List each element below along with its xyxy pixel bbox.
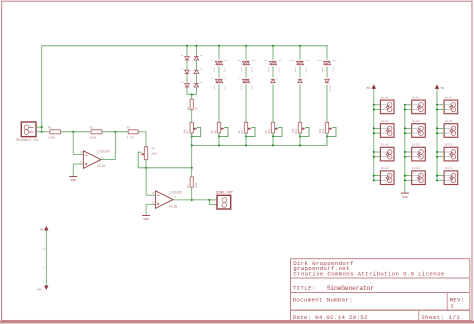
svg-text:4148: 4148 <box>277 67 280 73</box>
wire top bus <box>42 45 328 47</box>
svg-text:SINE_OUT: SINE_OUT <box>216 192 234 196</box>
diode D12 <box>273 61 277 64</box>
junction bottom bus <box>299 144 301 146</box>
svg-text:1N4148: 1N4148 <box>328 84 331 93</box>
svg-text:D14: D14 <box>306 59 311 62</box>
junction pins JU-B4 <box>404 175 406 177</box>
wire R9 wiper loop <box>246 127 255 136</box>
svg-text:4148: 4148 <box>250 67 253 73</box>
diode D13 <box>296 61 300 64</box>
junction R10 bottom <box>272 135 274 137</box>
wire pins JU-A4 <box>374 175 381 177</box>
svg-text:JU-C1: JU-C1 <box>444 96 452 99</box>
junction R9 bottom <box>245 135 247 137</box>
connector JU-B3 <box>412 147 426 161</box>
svg-text:TITLE:: TITLE: <box>293 285 316 292</box>
wire column 3 <box>245 46 247 60</box>
junction bus column 5 <box>299 45 301 47</box>
junction bus at string A <box>186 45 188 47</box>
resistor R3 <box>128 130 138 134</box>
wire R12 wiper loop <box>327 127 336 136</box>
wire IC1A -in <box>72 132 74 155</box>
svg-text:R2: R2 <box>89 126 93 129</box>
junction pins JU-A4 <box>373 175 375 177</box>
connector JU-B2 <box>412 124 426 138</box>
svg-text:1: 1 <box>102 156 104 159</box>
svg-text:2: 2 <box>81 151 83 154</box>
wire diode string D4-D6 <box>195 46 197 57</box>
svg-text:D1: D1 <box>181 54 184 57</box>
trimmer R7 <box>190 122 193 133</box>
svg-text:D6: D6 <box>200 81 203 84</box>
svg-text:JU-A4: JU-A4 <box>380 167 388 170</box>
svg-text:4148: 4148 <box>240 85 243 91</box>
power +5V IC1P <box>44 226 48 230</box>
connector JU-A2 <box>380 124 394 138</box>
connector TRIANGLE_IN <box>21 122 36 137</box>
svg-text:JU-A2: JU-A2 <box>380 120 388 123</box>
svg-text:JU-C2: JU-C2 <box>444 120 452 123</box>
svg-text:4148: 4148 <box>250 85 253 91</box>
power GND IC1P <box>44 286 48 290</box>
svg-text:GND: GND <box>402 196 408 199</box>
svg-text:GND: GND <box>143 218 149 221</box>
power +5V grid right <box>435 85 439 89</box>
junction pins JU-A1 <box>373 104 375 106</box>
wire string merge <box>187 94 196 96</box>
svg-text:1K: 1K <box>195 106 198 110</box>
svg-text:4148: 4148 <box>331 67 334 73</box>
wire IC1B output to SINE_OUT <box>173 199 209 201</box>
op-amp IC1B <box>155 191 173 209</box>
wire R4 bottom to node S <box>145 160 147 168</box>
svg-text:100K: 100K <box>48 137 55 140</box>
resistor R2 <box>91 130 102 134</box>
trimmer R4 <box>144 147 147 160</box>
junction bus column 2 <box>218 45 220 47</box>
wire IC1P supply <box>45 231 47 286</box>
wire diode string D1-D3 <box>186 46 188 57</box>
diode pair2 col3b <box>246 79 250 82</box>
svg-text:4148: 4148 <box>304 67 307 73</box>
svg-text:4.7K: 4.7K <box>127 137 134 140</box>
svg-text:D12: D12 <box>279 59 284 62</box>
junction bottom bus <box>272 144 274 146</box>
wire connector to R1 <box>42 131 50 133</box>
junction R7 bottom <box>191 135 193 137</box>
wire pins JU-A2 <box>374 127 381 129</box>
junction pins JU-A3 <box>373 151 375 153</box>
wire IC1B -in riser <box>145 168 147 195</box>
wire pins JU-B1 <box>405 104 412 106</box>
connector JU-B1 <box>412 100 426 114</box>
wire bus to node S <box>191 145 193 167</box>
wire R10 wiper loop <box>273 127 282 136</box>
svg-text:R3: R3 <box>127 126 131 129</box>
svg-text:5K: 5K <box>265 130 268 134</box>
diode D7 <box>215 61 219 64</box>
node IC1A output <box>114 131 116 133</box>
svg-text:JU-A1: JU-A1 <box>380 96 388 99</box>
svg-text:V-: V- <box>42 266 45 269</box>
wire column 4 <box>272 46 274 60</box>
svg-text:R5: R5 <box>187 184 190 188</box>
trimmer R9 <box>244 122 247 133</box>
junction R11 bottom <box>299 135 301 137</box>
wire pins JU-C1 <box>437 104 444 106</box>
diode D4 <box>194 57 199 60</box>
svg-text:5V: 5V <box>441 87 445 90</box>
wire R2 to R3 <box>102 131 128 133</box>
resistor R1 <box>50 130 61 134</box>
wire pins JU-A3 <box>374 151 381 153</box>
junction pins JU-C3 <box>436 151 438 153</box>
connector JU-C2 <box>444 124 458 138</box>
wire column 5 <box>299 46 301 60</box>
wire R11 wiper loop <box>300 127 309 136</box>
svg-text:JU-B4: JU-B4 <box>412 167 420 170</box>
diode single col5 <box>298 79 302 82</box>
connector JU-C3 <box>444 147 458 161</box>
svg-text:Document Number:: Document Number: <box>293 296 353 303</box>
wire R3 to pot R4 <box>138 131 146 133</box>
wire feedback resistor <box>191 168 193 177</box>
connector JU-B4 <box>412 171 426 185</box>
svg-text:4148: 4148 <box>267 67 270 73</box>
svg-text:D7: D7 <box>211 59 214 62</box>
svg-text:4148: 4148 <box>213 85 216 91</box>
svg-text:Date: 04.02.14 20:52: Date: 04.02.14 20:52 <box>293 314 368 321</box>
diode single col4 <box>271 79 275 82</box>
svg-text:10K: 10K <box>152 153 158 156</box>
wire grid column 3 <box>436 89 438 180</box>
ground IC1B +in <box>145 214 147 216</box>
svg-text:D10: D10 <box>252 59 257 62</box>
junction bottom bus <box>218 144 220 146</box>
svg-text:GND: GND <box>70 179 76 182</box>
svg-text:D16: D16 <box>333 59 338 62</box>
trimmer R10 <box>271 122 274 133</box>
svg-text:GND: GND <box>37 288 43 291</box>
svg-text:IC1A: IC1A <box>97 165 106 169</box>
junction SINE_OUT pins <box>208 199 210 201</box>
svg-text:D: D <box>252 77 254 80</box>
title block <box>291 259 470 321</box>
svg-text:R8: R8 <box>214 130 217 134</box>
svg-text:100: 100 <box>195 182 198 188</box>
wire pins JU-C3 <box>437 151 444 153</box>
svg-text:SineGenerator: SineGenerator <box>327 285 374 292</box>
connector JU-C4 <box>444 171 458 185</box>
wire R10 to bus <box>272 133 274 136</box>
junction bottom bus <box>191 144 193 146</box>
wire column 6 <box>326 46 328 60</box>
trimmer R12 <box>325 122 328 133</box>
svg-text:R10: R10 <box>268 128 271 133</box>
wire TRIANGLE_IN pins <box>36 126 42 128</box>
svg-text:JU-B3: JU-B3 <box>412 144 420 147</box>
svg-text:5V: 5V <box>40 229 44 232</box>
svg-text:D13: D13 <box>291 59 296 62</box>
svg-text:JU-C3: JU-C3 <box>444 144 452 147</box>
svg-text:LF353N: LF353N <box>97 151 110 155</box>
svg-text:D: D <box>212 77 214 80</box>
svg-text:4148: 4148 <box>223 67 226 73</box>
junction at connector pin 2 <box>41 131 43 133</box>
diode single col6 <box>325 79 329 82</box>
wire R7 wiper loop <box>192 127 201 136</box>
svg-text:7: 7 <box>174 197 176 200</box>
junction bus at string B <box>195 45 197 47</box>
wire R8 wiper loop <box>219 127 228 136</box>
svg-text:R4: R4 <box>152 148 156 151</box>
svg-text:D15: D15 <box>318 59 323 62</box>
ground IC1A +in <box>72 175 74 177</box>
wire grid column 1 <box>373 89 375 180</box>
ground grid column 2 <box>404 192 406 194</box>
junction R8 bottom <box>218 135 220 137</box>
power +5V grid left <box>372 85 376 89</box>
connector JU-A1 <box>380 100 394 114</box>
svg-text:D9: D9 <box>238 59 241 62</box>
wire pins JU-A1 <box>374 104 381 106</box>
wire riser to top bus <box>41 46 43 132</box>
diode D1 <box>185 57 190 60</box>
wire IC1A +in <box>73 163 83 165</box>
svg-text:4148: 4148 <box>240 67 243 73</box>
wire grid column 2 <box>404 105 406 193</box>
junction R12 bottom <box>326 135 328 137</box>
svg-text:R11: R11 <box>295 128 298 133</box>
svg-text:1K: 1K <box>211 130 214 134</box>
junction bottom bus <box>245 144 247 146</box>
wire last column corner <box>326 136 328 145</box>
svg-text:R12: R12 <box>322 128 325 133</box>
wire R9 to bus <box>245 133 247 136</box>
svg-text:100K: 100K <box>89 137 96 140</box>
svg-text:500: 500 <box>184 128 187 133</box>
svg-text:R7: R7 <box>187 130 190 134</box>
diode pair2 col2b <box>219 79 223 82</box>
node inverting input IC1A <box>72 131 74 133</box>
svg-text:10K: 10K <box>292 128 295 133</box>
wire pins JU-B4 <box>405 175 412 177</box>
svg-text:Creative Commons Attribution 3: Creative Commons Attribution 3.0 License <box>293 271 444 278</box>
svg-text:R6: R6 <box>187 106 190 110</box>
svg-text:LF353N: LF353N <box>169 192 182 196</box>
svg-text:JU-C4: JU-C4 <box>444 167 452 170</box>
diode D16 <box>327 61 331 64</box>
diode D8 <box>219 61 223 64</box>
wire IC1A output <box>101 159 115 161</box>
wire node S <box>138 167 192 169</box>
wire pins JU-C4 <box>437 175 444 177</box>
svg-text:D: D <box>331 77 333 80</box>
svg-text:6: 6 <box>153 192 155 195</box>
wire R8 to bus <box>218 133 220 136</box>
svg-text:4148: 4148 <box>321 67 324 73</box>
junction node S at IC1B input <box>145 167 147 169</box>
diode D2 <box>185 70 190 73</box>
junction pins JU-C1 <box>436 104 438 106</box>
svg-text:D: D <box>239 77 241 80</box>
wire R1 to R2 <box>61 131 91 133</box>
junction at connector pin 1 <box>41 126 43 128</box>
junction pins JU-C4 <box>436 175 438 177</box>
diode D15 <box>323 61 327 64</box>
svg-text:JU-B1: JU-B1 <box>412 96 420 99</box>
junction string merge <box>191 93 193 95</box>
wire pins JU-C2 <box>437 127 444 129</box>
connector JU-A3 <box>380 147 394 161</box>
wire R7 to bus <box>191 133 193 136</box>
svg-text:D4: D4 <box>200 54 203 57</box>
svg-text:2K: 2K <box>238 130 241 134</box>
svg-text:JU-B2: JU-B2 <box>412 120 420 123</box>
wire R4 wiper loop <box>138 152 141 168</box>
junction pins JU-C2 <box>436 127 438 129</box>
connector JU-C1 <box>444 100 458 114</box>
svg-text:D11: D11 <box>264 59 269 62</box>
diode pair2 col2a <box>215 79 219 82</box>
svg-text:4148: 4148 <box>223 85 226 91</box>
svg-text:D: D <box>225 77 227 80</box>
svg-text:IC1B: IC1B <box>169 206 178 210</box>
junction output at feedback <box>191 199 193 201</box>
junction pins JU-B2 <box>404 127 406 129</box>
wire R6 to trimmer R7 <box>191 109 193 122</box>
diode D10 <box>246 61 250 64</box>
connector SINE_OUT <box>217 195 231 209</box>
junction pins JU-B1 <box>404 104 406 106</box>
diode D5 <box>194 70 199 73</box>
junction bus column 3 <box>245 45 247 47</box>
junction pins JU-A2 <box>373 127 375 129</box>
wire bottom bus <box>192 144 327 146</box>
svg-text:JU-A3: JU-A3 <box>380 144 388 147</box>
svg-text:R1: R1 <box>48 126 52 129</box>
svg-text:V+: V+ <box>42 248 45 251</box>
svg-text:D: D <box>304 77 306 80</box>
wire pins JU-B3 <box>405 151 412 153</box>
wire IC1B +in <box>146 203 155 205</box>
resistor R6 <box>191 95 193 100</box>
junction node S at feedback <box>191 167 193 169</box>
diode D9 <box>242 61 246 64</box>
svg-text:D8: D8 <box>225 59 228 62</box>
diode D14 <box>300 61 304 64</box>
wire SINE_OUT pins <box>209 199 217 201</box>
svg-text:20K: 20K <box>319 128 322 133</box>
wire column 2 <box>218 46 220 60</box>
connector JU-A4 <box>380 171 394 185</box>
wire R11 to bus <box>299 133 301 136</box>
svg-text:R9: R9 <box>241 130 244 134</box>
wire pins JU-B2 <box>405 127 412 129</box>
svg-text:3: 3 <box>81 161 83 164</box>
diode D3 <box>185 84 190 87</box>
svg-text:1: 1 <box>450 303 454 310</box>
svg-text:TRIANGLE_IN: TRIANGLE_IN <box>15 139 37 143</box>
svg-text:D: D <box>277 77 279 80</box>
svg-text:4148: 4148 <box>213 67 216 73</box>
diode D11 <box>269 61 273 64</box>
diode D6 <box>194 84 199 87</box>
trimmer R8 <box>217 122 220 133</box>
junction bus column 4 <box>272 45 274 47</box>
resistor R5 feedback <box>190 177 193 187</box>
junction pins JU-B3 <box>404 151 406 153</box>
svg-text:5V: 5V <box>367 87 371 90</box>
svg-text:Sheet: 1/1: Sheet: 1/1 <box>421 314 460 321</box>
op-amp IC1A <box>83 151 101 169</box>
svg-text:D3: D3 <box>181 81 184 84</box>
svg-text:4148: 4148 <box>294 67 297 73</box>
diode pair2 col3a <box>242 79 246 82</box>
wire R12 to bus <box>326 133 328 136</box>
svg-text:D2: D2 <box>181 68 184 71</box>
svg-text:D5: D5 <box>200 68 203 71</box>
trimmer R11 <box>298 122 301 133</box>
